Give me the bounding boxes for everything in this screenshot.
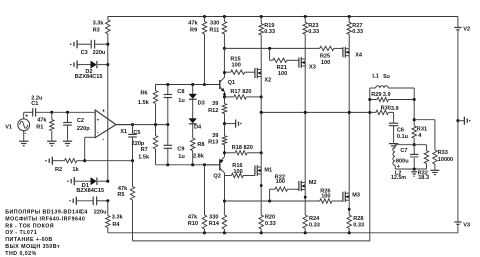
resistor R23 bbox=[303, 17, 319, 60]
resistor R7 bbox=[138, 125, 158, 165]
svg-text:220p: 220p bbox=[77, 126, 90, 132]
svg-text:R24: R24 bbox=[309, 216, 320, 222]
svg-text:0.33: 0.33 bbox=[265, 221, 276, 227]
ground V1 bbox=[19, 140, 28, 146]
svg-text:3.3k: 3.3k bbox=[112, 215, 124, 221]
svg-text:0.1u: 0.1u bbox=[397, 134, 409, 140]
ground C2 bbox=[63, 140, 72, 146]
svg-text:R6: R6 bbox=[140, 91, 147, 97]
svg-text:1.5k: 1.5k bbox=[138, 155, 150, 161]
svg-text:M1: M1 bbox=[264, 168, 272, 174]
inductor L1 bbox=[370, 74, 414, 113]
svg-text:C2: C2 bbox=[77, 118, 84, 124]
svg-text:V3: V3 bbox=[463, 223, 470, 229]
svg-text:3.9: 3.9 bbox=[391, 106, 399, 112]
svg-text:R18 820: R18 820 bbox=[232, 145, 253, 151]
svg-text:-: - bbox=[102, 136, 104, 142]
wire V+ top rail bbox=[108, 15, 458, 18]
svg-text:R25: R25 bbox=[320, 54, 330, 60]
wire upper gate rail bbox=[223, 47, 343, 73]
svg-text:-: - bbox=[24, 130, 26, 137]
wire lower gate rail bbox=[223, 199, 343, 202]
svg-text:100: 100 bbox=[276, 179, 285, 185]
resistor R12 bbox=[208, 95, 227, 123]
svg-text:R8 - ТОК ПОКОЯ: R8 - ТОК ПОКОЯ bbox=[5, 223, 54, 229]
svg-text:12.5m: 12.5m bbox=[391, 175, 406, 181]
svg-text:C5: C5 bbox=[133, 130, 140, 136]
svg-text:100: 100 bbox=[233, 169, 242, 175]
svg-text:THD 0,02%: THD 0,02% bbox=[5, 251, 36, 257]
resistor R19 bbox=[259, 17, 275, 70]
resistor R6 bbox=[138, 85, 158, 125]
svg-text:X1: X1 bbox=[120, 129, 127, 135]
svg-text:100: 100 bbox=[321, 60, 330, 66]
resistor R3 bbox=[93, 17, 110, 45]
svg-text:220u: 220u bbox=[93, 50, 106, 56]
svg-text:M3: M3 bbox=[352, 192, 360, 198]
svg-text:330: 330 bbox=[209, 215, 218, 221]
svg-text:+: + bbox=[102, 109, 105, 115]
battery bias spreader bbox=[223, 120, 242, 128]
wire bias top rail bbox=[156, 83, 220, 86]
resistor R5 bbox=[117, 161, 134, 241]
battery V2 bbox=[454, 17, 470, 121]
wire inverting input bbox=[85, 137, 96, 160]
svg-text:220p: 220p bbox=[132, 141, 145, 147]
svg-text:R30: R30 bbox=[381, 105, 391, 111]
svg-text:39: 39 bbox=[212, 101, 218, 107]
svg-text:R29: R29 bbox=[371, 92, 381, 98]
resistor R4 bbox=[106, 201, 124, 233]
svg-text:R15: R15 bbox=[230, 56, 240, 62]
svg-text:47k: 47k bbox=[188, 21, 198, 27]
svg-text:BZX84C15: BZX84C15 bbox=[75, 74, 103, 80]
svg-text:V1: V1 bbox=[5, 125, 12, 131]
svg-text:220u: 220u bbox=[94, 210, 107, 216]
svg-text:R8: R8 bbox=[197, 142, 204, 148]
resistor R32 bbox=[418, 145, 429, 181]
svg-text:R3: R3 bbox=[93, 28, 100, 34]
svg-text:100: 100 bbox=[232, 63, 241, 69]
svg-text:R5: R5 bbox=[117, 192, 124, 198]
wire op-amp supply bbox=[107, 44, 109, 181]
mosfet X3 bbox=[299, 57, 316, 112]
capacitor C3 bbox=[70, 40, 109, 56]
svg-text:47k: 47k bbox=[37, 117, 47, 123]
mosfet X2 bbox=[255, 68, 271, 113]
note specifications bbox=[5, 210, 85, 257]
zener D2 bbox=[70, 61, 109, 81]
resistor R9 bbox=[188, 17, 206, 85]
svg-text:R1: R1 bbox=[36, 125, 43, 131]
wire vas input row bbox=[116, 123, 169, 126]
svg-text:2.8k: 2.8k bbox=[193, 153, 205, 159]
svg-text:100: 100 bbox=[321, 194, 330, 200]
resistor R30 bbox=[376, 105, 399, 114]
resistor R18 bbox=[223, 145, 263, 155]
capacitor C9 bbox=[164, 125, 186, 165]
svg-text:18.3: 18.3 bbox=[418, 175, 429, 181]
svg-text:C1: C1 bbox=[31, 101, 38, 107]
capacitor C4 bbox=[69, 196, 109, 215]
resistor R1 bbox=[36, 111, 54, 140]
svg-text:R10: R10 bbox=[188, 221, 198, 227]
svg-text:100: 100 bbox=[278, 71, 287, 77]
svg-text:Q1: Q1 bbox=[228, 80, 235, 86]
resistor R22 bbox=[270, 174, 299, 201]
svg-text:C7: C7 bbox=[400, 148, 407, 154]
svg-text:0.33: 0.33 bbox=[308, 29, 319, 35]
svg-text:R4: R4 bbox=[112, 222, 120, 228]
ground R33 bbox=[430, 170, 439, 174]
svg-text:R20: R20 bbox=[265, 215, 275, 221]
capacitor C6 bbox=[389, 112, 409, 142]
svg-text:1u: 1u bbox=[178, 98, 185, 104]
transistor Q2 bbox=[205, 153, 225, 201]
wire feedback node bbox=[85, 159, 134, 162]
resistor R16 bbox=[225, 163, 255, 178]
inductor L2 bbox=[391, 145, 406, 181]
svg-text:1k: 1k bbox=[72, 167, 79, 173]
op-amp X1 bbox=[95, 109, 132, 143]
mosfet M1 bbox=[255, 112, 272, 215]
svg-text:R14: R14 bbox=[209, 221, 220, 227]
svg-text:ОУ - TL071: ОУ - TL071 bbox=[5, 230, 37, 236]
battery supply midpoint bbox=[456, 117, 470, 222]
svg-text:ВЫХ МОЩН 350Вт: ВЫХ МОЩН 350Вт bbox=[5, 244, 60, 250]
svg-text:+: + bbox=[97, 117, 100, 122]
svg-text:R31: R31 bbox=[417, 127, 427, 133]
svg-text:M2: M2 bbox=[309, 180, 317, 186]
resistor R24 bbox=[303, 215, 320, 233]
resistor R33 bbox=[414, 120, 453, 170]
wire V- bottom rail bbox=[108, 231, 458, 234]
ground load bbox=[411, 169, 417, 176]
svg-text:47k: 47k bbox=[188, 215, 198, 221]
wire load bottom rail bbox=[395, 167, 426, 170]
svg-text:МОСФИТЫ IRF640-IRF9640: МОСФИТЫ IRF640-IRF9640 bbox=[5, 216, 85, 222]
svg-text:R2: R2 bbox=[55, 167, 62, 173]
svg-text:R17 820: R17 820 bbox=[230, 89, 251, 95]
capacitor C8 bbox=[164, 85, 186, 125]
svg-text:X2: X2 bbox=[264, 78, 271, 84]
resistor R25 bbox=[320, 46, 334, 66]
svg-text:БИПОЛЯРЫ BD139-BD140: БИПОЛЯРЫ BD139-BD140 bbox=[5, 210, 82, 216]
transistor Q1 bbox=[205, 73, 236, 97]
svg-text:5u: 5u bbox=[383, 74, 390, 80]
svg-text:BZX84C15: BZX84C15 bbox=[76, 188, 104, 194]
resistor R14 bbox=[209, 201, 227, 233]
resistor R15 bbox=[223, 56, 255, 74]
mosfet M3 bbox=[343, 112, 360, 215]
svg-text:39: 39 bbox=[212, 133, 218, 139]
resistor R27 bbox=[347, 17, 363, 49]
svg-text:+: + bbox=[25, 114, 28, 120]
resistor R21 bbox=[270, 48, 299, 77]
svg-text:0.33: 0.33 bbox=[353, 223, 364, 229]
svg-text:1u: 1u bbox=[178, 154, 185, 160]
ground C6 bbox=[389, 142, 398, 148]
mosfet M2 bbox=[299, 112, 317, 215]
svg-text:0.33: 0.33 bbox=[352, 29, 363, 35]
wire input node bbox=[52, 111, 95, 113]
svg-text:R12: R12 bbox=[208, 108, 218, 114]
resistor R26 bbox=[320, 189, 332, 204]
resistor R10 bbox=[188, 165, 207, 233]
capacitor C7 bbox=[396, 145, 419, 170]
svg-text:C6: C6 bbox=[397, 127, 404, 133]
resistor R2 bbox=[45, 157, 86, 173]
resistor R13 bbox=[208, 124, 227, 153]
svg-text:-: - bbox=[97, 130, 99, 136]
svg-text:0.33: 0.33 bbox=[309, 223, 320, 229]
svg-text:R11: R11 bbox=[209, 28, 219, 34]
svg-text:1.5k: 1.5k bbox=[138, 100, 150, 106]
resistor R31 bbox=[412, 100, 427, 147]
svg-text:V2: V2 bbox=[463, 26, 470, 32]
resistor R29 bbox=[368, 92, 416, 102]
capacitor C2 bbox=[63, 111, 90, 140]
resistor R8 bbox=[191, 124, 205, 165]
source V1 bbox=[5, 112, 29, 140]
svg-text:C9: C9 bbox=[177, 147, 184, 153]
resistor R28 bbox=[347, 215, 364, 233]
svg-text:R33: R33 bbox=[438, 150, 448, 156]
capacitor C1 bbox=[24, 95, 52, 116]
capacitor C5 bbox=[128, 123, 145, 161]
svg-text:R9: R9 bbox=[190, 28, 197, 34]
wire bias bottom rail bbox=[156, 163, 220, 166]
mosfet X4 bbox=[343, 47, 363, 113]
svg-text:R13: R13 bbox=[208, 140, 218, 146]
battery V3 bbox=[454, 222, 470, 233]
svg-text:3.3k: 3.3k bbox=[93, 21, 105, 27]
resistor R11 bbox=[209, 17, 226, 49]
svg-text:330: 330 bbox=[210, 21, 219, 27]
wire feedback rail bbox=[133, 112, 370, 241]
zener D1 bbox=[67, 177, 109, 194]
svg-text:D4: D4 bbox=[194, 125, 202, 131]
svg-text:ПИТАНИЕ +-60В: ПИТАНИЕ +-60В bbox=[5, 237, 52, 243]
svg-text:X3: X3 bbox=[309, 65, 316, 71]
svg-text:R28: R28 bbox=[353, 216, 363, 222]
resistor R17 bbox=[225, 89, 263, 99]
svg-text:10000: 10000 bbox=[438, 157, 454, 163]
svg-text:R7: R7 bbox=[141, 147, 148, 153]
svg-text:C8: C8 bbox=[177, 89, 184, 95]
svg-text:Q2: Q2 bbox=[213, 173, 220, 179]
wire output rail bbox=[260, 111, 376, 114]
diode D4 bbox=[189, 99, 202, 130]
resistor R20 bbox=[259, 215, 276, 233]
svg-text:X4: X4 bbox=[355, 52, 363, 58]
svg-text:L1: L1 bbox=[372, 74, 379, 80]
ground R1 bbox=[47, 140, 56, 146]
wire load top rail bbox=[395, 144, 426, 146]
svg-text:D3: D3 bbox=[198, 100, 205, 106]
svg-text:3.9: 3.9 bbox=[383, 92, 391, 98]
diode D3 bbox=[189, 85, 205, 107]
svg-text:0.33: 0.33 bbox=[264, 29, 275, 35]
svg-text:C3: C3 bbox=[81, 50, 88, 56]
